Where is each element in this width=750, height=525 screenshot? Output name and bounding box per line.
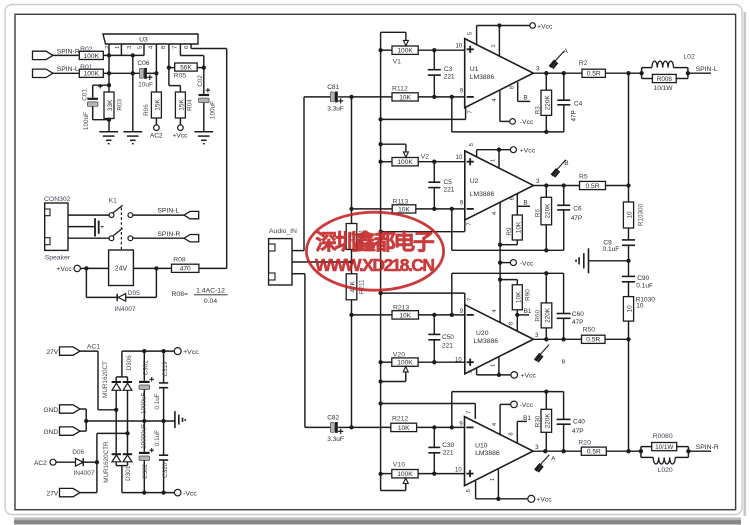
svg-text:10uF: 10uF [138, 82, 153, 89]
svg-text:+Vcc: +Vcc [56, 266, 72, 273]
svg-text:10/1W: 10/1W [654, 85, 674, 92]
svg-text:221: 221 [444, 187, 455, 194]
svg-text:1: 1 [491, 44, 497, 47]
svg-text:B1: B1 [524, 308, 532, 315]
svg-text:10: 10 [627, 211, 634, 219]
svg-text:C40: C40 [573, 418, 585, 425]
svg-text:R03: R03 [117, 98, 124, 110]
svg-text:R06: R06 [143, 104, 150, 116]
svg-text:WWW.XD218.CN: WWW.XD218.CN [315, 255, 435, 275]
svg-text:3: 3 [536, 178, 540, 185]
svg-text:100K: 100K [84, 53, 100, 60]
svg-text:10: 10 [455, 358, 462, 364]
svg-text:0.5R: 0.5R [586, 337, 600, 344]
svg-text:R04: R04 [187, 99, 194, 111]
svg-text:D301: D301 [125, 465, 132, 481]
svg-text:100uF: 100uF [210, 101, 217, 119]
svg-text:2: 2 [105, 46, 111, 49]
svg-text:1.4AC-12: 1.4AC-12 [196, 288, 225, 295]
svg-text:220K: 220K [545, 413, 552, 429]
svg-text:10000uF: 10000uF [141, 424, 148, 449]
svg-text:B: B [523, 94, 527, 101]
svg-text:100K: 100K [397, 159, 413, 166]
svg-text:R213: R213 [393, 305, 409, 312]
svg-text:C6: C6 [573, 205, 582, 212]
svg-text:100K: 100K [397, 360, 413, 367]
svg-text:GND: GND [44, 429, 59, 436]
svg-text:0.1uF: 0.1uF [636, 282, 653, 289]
svg-text:0.5R: 0.5R [587, 71, 601, 78]
svg-text:R50: R50 [583, 327, 596, 334]
svg-text:10: 10 [456, 155, 463, 161]
svg-text:220K: 220K [545, 203, 552, 219]
svg-text:10: 10 [455, 468, 462, 474]
svg-text:R30: R30 [534, 415, 541, 427]
svg-text:10: 10 [627, 305, 634, 313]
svg-text:24V: 24V [115, 266, 128, 273]
svg-text:R02: R02 [80, 46, 93, 53]
svg-text:47P: 47P [572, 428, 584, 435]
svg-text:33K: 33K [107, 99, 114, 111]
svg-text:3: 3 [536, 66, 540, 73]
svg-text:C319: C319 [162, 361, 169, 377]
svg-text:R08: R08 [173, 256, 186, 263]
svg-text:C320: C320 [162, 462, 169, 478]
svg-text:10K: 10K [516, 291, 523, 303]
svg-text:10K: 10K [399, 312, 411, 319]
svg-text:+Vcc: +Vcc [173, 133, 189, 140]
svg-text:AC2: AC2 [150, 133, 163, 140]
svg-text:C4: C4 [574, 100, 583, 107]
svg-text:SPIN-R: SPIN-R [157, 231, 180, 238]
svg-text:LM3886: LM3886 [470, 74, 495, 81]
svg-text:1: 1 [490, 478, 496, 481]
svg-text:15K: 15K [155, 99, 162, 111]
svg-text:GND: GND [44, 407, 59, 414]
svg-text:MUR1620CT: MUR1620CT [102, 361, 109, 398]
svg-text:V20: V20 [393, 351, 405, 358]
svg-text:0.1uF: 0.1uF [603, 246, 620, 253]
svg-text:1: 1 [115, 46, 121, 49]
svg-text:R112: R112 [392, 86, 408, 93]
svg-text:+Vcc: +Vcc [536, 497, 552, 504]
svg-text:C301: C301 [142, 360, 149, 376]
svg-text:R5: R5 [579, 174, 588, 181]
svg-text:0.5R: 0.5R [587, 449, 601, 456]
svg-text:SPIN-L: SPIN-L [57, 66, 79, 73]
svg-text:221: 221 [444, 74, 455, 81]
svg-text:3: 3 [535, 444, 539, 451]
svg-text:SPIN-L: SPIN-L [157, 208, 179, 215]
svg-text:V2: V2 [421, 154, 430, 161]
svg-text:47P: 47P [571, 110, 578, 121]
svg-text:V1: V1 [393, 58, 402, 65]
svg-text:C5: C5 [444, 179, 453, 186]
svg-text:B: B [562, 360, 566, 366]
svg-text:100K: 100K [397, 471, 413, 478]
svg-text:+Vcc: +Vcc [537, 23, 553, 30]
svg-text:R6: R6 [535, 208, 542, 217]
svg-text:Speaker: Speaker [45, 255, 71, 262]
svg-text:3: 3 [535, 332, 539, 339]
svg-text:7: 7 [467, 298, 473, 301]
svg-text:IN4007: IN4007 [74, 470, 95, 477]
svg-text:R113: R113 [393, 198, 409, 205]
svg-text:SPIN-R: SPIN-R [696, 444, 719, 451]
svg-text:K1: K1 [109, 198, 118, 205]
svg-text:C01: C01 [82, 89, 89, 101]
svg-text:AC1: AC1 [87, 343, 100, 350]
svg-text:V10: V10 [393, 461, 405, 468]
svg-text:10K: 10K [398, 425, 410, 432]
svg-text:10K: 10K [516, 221, 523, 233]
svg-text:100K: 100K [84, 71, 100, 78]
svg-text:R212: R212 [392, 416, 408, 423]
svg-text:-Vcc: -Vcc [520, 119, 534, 126]
svg-text:B: B [564, 160, 568, 167]
svg-text:10: 10 [636, 303, 644, 310]
svg-text:0.5R: 0.5R [586, 183, 600, 190]
svg-text:7: 7 [467, 222, 473, 225]
svg-text:3.3uF: 3.3uF [327, 106, 344, 113]
svg-text:7: 7 [173, 46, 179, 49]
svg-text:10K: 10K [398, 206, 410, 213]
svg-text:-Vcc: -Vcc [520, 260, 534, 267]
svg-text:27V: 27V [46, 349, 58, 356]
svg-text:C82: C82 [327, 414, 339, 421]
svg-text:1: 1 [491, 364, 497, 367]
svg-text:D306: D306 [126, 355, 133, 371]
svg-text:L020: L020 [658, 467, 673, 474]
svg-text:0.1uF: 0.1uF [154, 393, 161, 409]
svg-text:100K: 100K [397, 48, 413, 55]
svg-text:L02: L02 [683, 54, 695, 61]
svg-text:10/1W: 10/1W [655, 444, 673, 451]
svg-text:深圳鑫都电子: 深圳鑫都电子 [316, 230, 435, 255]
svg-text:MUR1620CTR: MUR1620CTR [103, 441, 110, 483]
svg-text:1: 1 [491, 159, 497, 162]
svg-text:LM3886: LM3886 [474, 338, 499, 345]
svg-text:AC2: AC2 [34, 460, 47, 467]
svg-text:7: 7 [467, 110, 473, 113]
svg-text:R008: R008 [657, 76, 673, 83]
svg-text:Audio_IN: Audio_IN [269, 228, 297, 235]
svg-text:47P: 47P [571, 215, 583, 222]
svg-text:R2: R2 [579, 60, 588, 67]
svg-text:1000uF: 1000uF [141, 392, 148, 414]
svg-text:+Vcc: +Vcc [183, 349, 199, 356]
svg-text:220K: 220K [545, 95, 552, 111]
svg-text:-Vcc: -Vcc [183, 490, 197, 497]
svg-text:C3: C3 [444, 66, 453, 73]
svg-text:D05: D05 [128, 290, 140, 297]
svg-text:10K: 10K [399, 94, 411, 101]
svg-text:56K: 56K [180, 64, 192, 71]
svg-text:R05: R05 [174, 73, 187, 80]
svg-text:7: 7 [467, 411, 473, 414]
svg-text:15K: 15K [179, 99, 186, 111]
svg-text:R0080: R0080 [653, 433, 673, 440]
svg-text:C06: C06 [137, 60, 149, 67]
svg-text:C81: C81 [327, 84, 339, 91]
svg-text:U1: U1 [470, 66, 479, 73]
svg-text:LM3886: LM3886 [475, 450, 500, 457]
svg-text:IN4007: IN4007 [115, 306, 136, 313]
svg-text:470: 470 [180, 266, 191, 273]
svg-text:221: 221 [442, 343, 453, 350]
svg-text:47P: 47P [572, 319, 584, 326]
svg-text:R211: R211 [359, 279, 366, 294]
svg-text:R3: R3 [535, 106, 542, 115]
svg-text:A: A [551, 455, 556, 462]
svg-text:220K: 220K [545, 307, 552, 323]
svg-text:3.3uF: 3.3uF [327, 436, 344, 443]
svg-text:B1: B1 [523, 415, 531, 422]
svg-text:U2: U2 [470, 178, 479, 185]
svg-text:C50: C50 [442, 334, 454, 341]
svg-text:0.1uF: 0.1uF [154, 430, 161, 446]
svg-text:R60: R60 [534, 309, 541, 321]
svg-text:100uF: 100uF [83, 112, 90, 130]
svg-text:-Vcc: -Vcc [520, 402, 534, 409]
svg-text:0.04: 0.04 [204, 298, 217, 305]
svg-text:R9: R9 [506, 227, 513, 236]
svg-text:10: 10 [456, 43, 463, 49]
svg-text:C302: C302 [142, 463, 149, 479]
svg-text:D06: D06 [72, 449, 84, 456]
svg-text:221: 221 [443, 450, 454, 457]
svg-text:SPIN-L: SPIN-L [696, 66, 718, 73]
svg-text:+Vcc: +Vcc [520, 147, 536, 154]
svg-text:U10: U10 [475, 443, 488, 450]
svg-text:B: B [523, 200, 527, 207]
svg-text:27V: 27V [46, 490, 58, 497]
svg-text:R08=: R08= [172, 291, 188, 298]
svg-text:C30: C30 [442, 442, 454, 449]
svg-text:A: A [564, 48, 569, 55]
svg-text:R10300: R10300 [637, 203, 644, 226]
svg-text:C02: C02 [197, 75, 204, 87]
svg-text:U20: U20 [476, 330, 489, 337]
svg-text:C90: C90 [637, 275, 649, 282]
svg-text:R01: R01 [80, 64, 93, 71]
svg-text:R90: R90 [525, 289, 532, 301]
svg-text:C60: C60 [572, 311, 584, 318]
svg-text:SPIN-R: SPIN-R [57, 48, 80, 55]
svg-text:CON302: CON302 [44, 196, 71, 203]
svg-text:R20: R20 [578, 439, 591, 446]
svg-text:LM3886: LM3886 [470, 191, 495, 198]
svg-text:U3: U3 [139, 36, 148, 43]
svg-text:+Vcc: +Vcc [521, 373, 537, 380]
